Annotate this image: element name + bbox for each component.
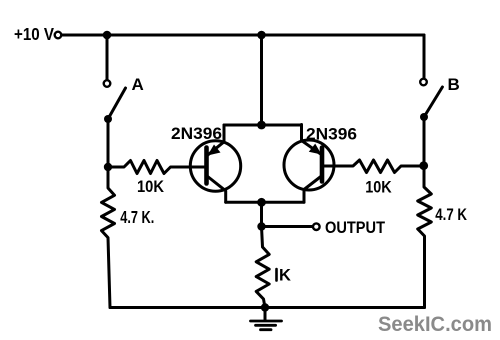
svg-text:OUTPUT: OUTPUT [325,219,385,237]
svg-text:A: A [132,75,144,94]
svg-text:4.7 K.: 4.7 K. [120,207,154,227]
svg-text:SeekIC.com: SeekIC.com [378,313,492,336]
svg-text:+10 V: +10 V [14,24,54,44]
svg-text:K: K [279,267,291,285]
svg-text:10K: 10K [365,178,391,196]
svg-text:10K: 10K [137,178,164,196]
svg-text:2N396: 2N396 [306,125,357,144]
svg-text:2N396: 2N396 [171,124,222,143]
svg-text:4.7 K: 4.7 K [435,206,467,224]
svg-text:B: B [448,75,460,94]
